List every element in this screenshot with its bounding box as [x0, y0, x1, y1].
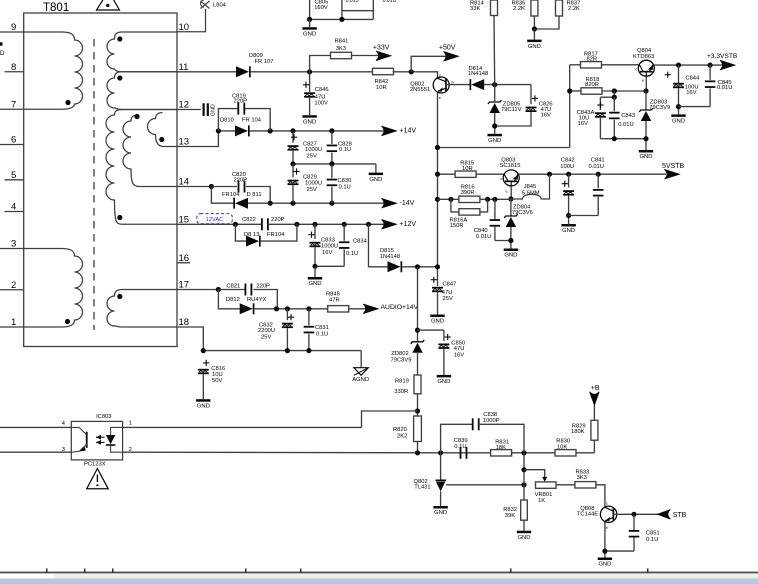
svg-text:0.1U: 0.1U	[316, 332, 328, 338]
svg-text:3K3: 3K3	[336, 46, 346, 52]
svg-text:GND: GND	[303, 119, 316, 125]
svg-text:+12V: +12V	[400, 221, 417, 228]
svg-text:1000U: 1000U	[305, 181, 322, 187]
svg-text:D8 13: D8 13	[244, 232, 259, 238]
svg-text:47U: 47U	[442, 290, 453, 296]
svg-text:0.1U: 0.1U	[454, 444, 466, 450]
svg-text:GND: GND	[488, 138, 501, 144]
svg-text:5.5MM: 5.5MM	[522, 190, 540, 196]
svg-text:b: b	[452, 80, 455, 85]
svg-text:GND: GND	[431, 319, 444, 325]
svg-text:25V: 25V	[443, 296, 453, 302]
svg-text:1000U: 1000U	[305, 147, 322, 153]
svg-text:47U: 47U	[454, 346, 465, 352]
svg-text:J845: J845	[524, 184, 537, 190]
svg-text:2200U: 2200U	[258, 328, 275, 334]
svg-text:e: e	[642, 78, 645, 83]
svg-text:330R: 330R	[394, 389, 408, 395]
svg-text:GND: GND	[437, 379, 450, 385]
svg-text:47R: 47R	[329, 297, 340, 303]
svg-text:1: 1	[11, 317, 16, 328]
svg-text:KTD863: KTD863	[633, 54, 654, 60]
svg-text:D810: D810	[220, 117, 234, 123]
svg-text:e: e	[606, 525, 609, 530]
svg-text:e: e	[439, 95, 442, 100]
svg-text:AGND: AGND	[352, 377, 369, 383]
svg-text:GND: GND	[369, 177, 382, 183]
svg-text:1: 1	[129, 421, 132, 427]
svg-text:8: 8	[11, 62, 16, 73]
svg-text:+3.3VSTB: +3.3VSTB	[707, 53, 738, 60]
svg-text:820R: 820R	[585, 82, 599, 88]
svg-text:SC1815: SC1815	[500, 163, 521, 169]
svg-text:FR104: FR104	[267, 232, 285, 238]
svg-text:2: 2	[11, 280, 16, 291]
svg-text:+50V: +50V	[439, 45, 456, 52]
svg-text:9: 9	[11, 22, 16, 33]
svg-text:c: c	[500, 176, 502, 181]
svg-text:R819: R819	[395, 379, 409, 385]
svg-text:C844: C844	[685, 76, 700, 82]
svg-text:16V: 16V	[541, 112, 551, 118]
svg-text:16V: 16V	[578, 121, 588, 127]
svg-text:220P: 220P	[234, 99, 248, 105]
svg-text:0.01U: 0.01U	[618, 122, 633, 128]
svg-text:STB: STB	[673, 512, 687, 519]
svg-text:T801: T801	[43, 2, 69, 14]
svg-text:1000U: 1000U	[321, 243, 338, 249]
svg-text:79C3V9: 79C3V9	[649, 105, 670, 111]
svg-text:0.01U: 0.01U	[717, 85, 732, 91]
svg-text:PC123X: PC123X	[84, 461, 106, 467]
svg-text:e: e	[506, 189, 509, 194]
svg-text:79C11V: 79C11V	[501, 107, 522, 113]
svg-text:GND: GND	[434, 510, 447, 516]
svg-text:2.2K: 2.2K	[568, 6, 580, 12]
svg-text:-14V: -14V	[400, 200, 415, 207]
svg-text:220P: 220P	[234, 177, 248, 183]
svg-text:GND: GND	[672, 119, 685, 125]
svg-text:GND: GND	[504, 253, 517, 259]
svg-text:3K3: 3K3	[577, 475, 587, 481]
svg-text:79C3V6: 79C3V6	[512, 210, 533, 216]
svg-text:GND: GND	[308, 281, 321, 287]
svg-text:R820: R820	[393, 427, 407, 433]
svg-text:0.015: 0.015	[346, 0, 359, 4]
svg-text:C821: C821	[226, 283, 240, 289]
svg-text:180K: 180K	[571, 429, 585, 435]
svg-text:12VAC: 12VAC	[206, 217, 223, 223]
svg-text:D 811: D 811	[247, 192, 262, 198]
svg-text:GND: GND	[639, 154, 652, 160]
svg-text:4: 4	[11, 202, 16, 213]
svg-text:0.1U: 0.1U	[346, 251, 358, 257]
svg-text:C822: C822	[242, 217, 256, 223]
svg-text:RU4YX: RU4YX	[247, 297, 266, 303]
svg-text:GND: GND	[562, 228, 575, 234]
svg-text:GND: GND	[197, 403, 210, 409]
svg-text:C847: C847	[443, 282, 457, 288]
svg-text:2K2: 2K2	[397, 433, 407, 439]
svg-text:16V: 16V	[686, 90, 696, 96]
svg-text:AUDIO+14V: AUDIO+14V	[381, 304, 419, 311]
svg-text:16V: 16V	[322, 250, 332, 256]
svg-text:10R: 10R	[376, 85, 387, 91]
svg-text:39K: 39K	[505, 513, 515, 519]
svg-text:79C3V9: 79C3V9	[391, 357, 412, 363]
svg-text:33K: 33K	[470, 6, 480, 12]
svg-text:C841: C841	[591, 158, 605, 164]
svg-text:16V: 16V	[454, 353, 464, 359]
svg-text:25V: 25V	[307, 154, 317, 160]
svg-text:50V: 50V	[212, 378, 222, 384]
svg-text:+33V: +33V	[373, 44, 390, 51]
svg-text:3: 3	[11, 239, 16, 250]
svg-text:10R: 10R	[462, 166, 473, 172]
svg-text:1000P: 1000P	[483, 418, 500, 424]
svg-text:IC803: IC803	[96, 414, 111, 420]
svg-text:C830: C830	[338, 178, 352, 184]
svg-text:1N4148: 1N4148	[468, 71, 488, 77]
svg-text:5VSTB: 5VSTB	[662, 163, 685, 170]
svg-text:C831: C831	[315, 325, 329, 331]
svg-text:25V: 25V	[261, 334, 271, 340]
svg-text:100U: 100U	[560, 164, 574, 170]
svg-text:0.1U: 0.1U	[339, 147, 351, 153]
svg-text:4: 4	[62, 421, 66, 427]
svg-text:0.01U: 0.01U	[589, 164, 604, 170]
svg-text:c: c	[439, 72, 441, 77]
svg-text:220P: 220P	[256, 283, 270, 289]
svg-text:2.2K: 2.2K	[513, 6, 525, 12]
svg-text:ZD802: ZD802	[391, 351, 408, 357]
svg-text:7: 7	[11, 99, 16, 110]
svg-text:1K: 1K	[538, 498, 545, 504]
svg-text:L804: L804	[213, 3, 227, 9]
svg-text:GND: GND	[517, 535, 530, 541]
svg-text:FR104: FR104	[222, 192, 240, 198]
svg-text:C834: C834	[353, 238, 368, 244]
svg-text:FR 107: FR 107	[255, 59, 274, 65]
svg-text:25V: 25V	[307, 187, 317, 193]
svg-text:0.1U: 0.1U	[339, 184, 351, 190]
svg-text:C851: C851	[646, 530, 660, 536]
svg-text:10K: 10K	[557, 445, 567, 451]
svg-text:GND: GND	[303, 31, 316, 37]
svg-text:6: 6	[11, 135, 16, 146]
svg-text:GND: GND	[528, 44, 541, 50]
svg-text:2N5551: 2N5551	[410, 87, 430, 93]
svg-text:C846: C846	[315, 87, 329, 93]
svg-text:c: c	[606, 501, 608, 506]
svg-text:82R: 82R	[587, 57, 598, 63]
svg-text:FR 104: FR 104	[242, 117, 262, 123]
svg-text:0.01U: 0.01U	[383, 0, 397, 4]
svg-text:C842: C842	[561, 158, 575, 164]
svg-text:5: 5	[11, 170, 16, 181]
svg-text:D812: D812	[226, 297, 240, 303]
svg-text:GND: GND	[598, 562, 611, 568]
svg-text:C843: C843	[621, 113, 635, 119]
svg-text:100V: 100V	[314, 100, 328, 106]
svg-text:+B: +B	[591, 385, 600, 392]
svg-text:0.01U: 0.01U	[476, 234, 491, 240]
svg-text:R841: R841	[335, 39, 349, 45]
svg-text:1N4148: 1N4148	[380, 254, 400, 260]
svg-text:GND: GND	[211, 104, 217, 116]
svg-text:+14V: +14V	[400, 128, 417, 135]
svg-text:TC144E: TC144E	[577, 512, 598, 518]
svg-text:220P: 220P	[271, 217, 285, 223]
svg-text:390R: 390R	[461, 190, 475, 196]
svg-text:TL431: TL431	[414, 485, 430, 491]
svg-text:0.1U: 0.1U	[646, 537, 658, 543]
svg-text:c: c	[635, 67, 637, 72]
svg-text:D: D	[0, 51, 5, 57]
svg-text:18K: 18K	[496, 445, 506, 451]
svg-text:160V: 160V	[314, 5, 328, 11]
svg-text:150R: 150R	[450, 223, 464, 229]
